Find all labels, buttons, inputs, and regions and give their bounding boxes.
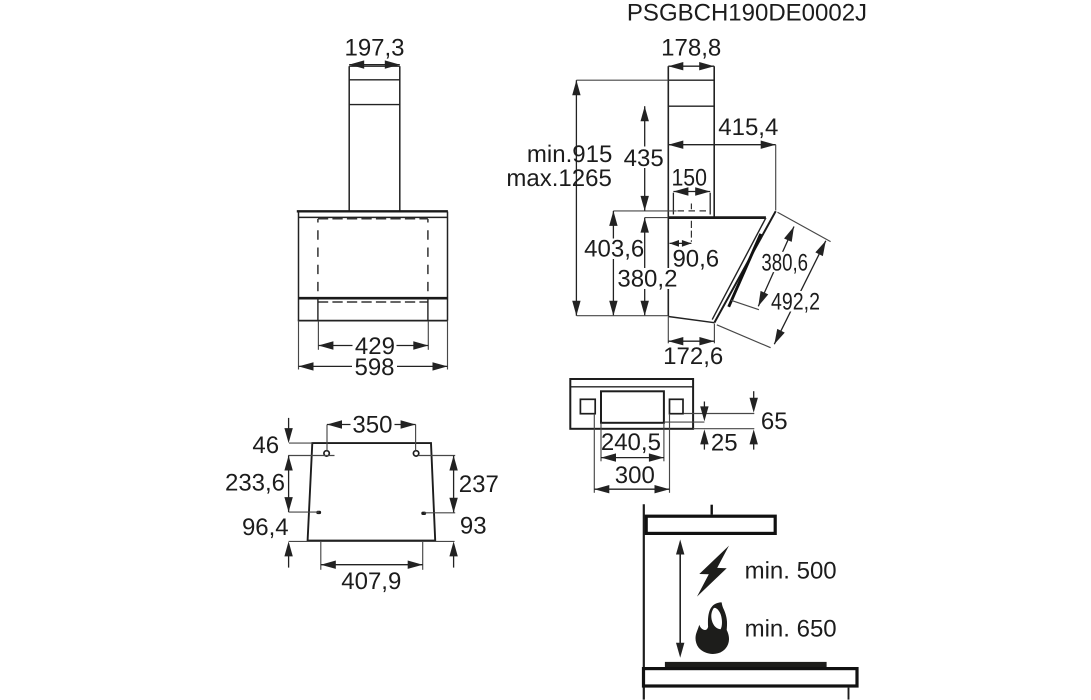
front chimney top edge: [349, 65, 400, 67]
front chimney left edge: [348, 66, 350, 211]
upper hole right: [413, 451, 418, 456]
svg-text:150: 150: [671, 164, 707, 191]
dim 93 lower arrow: [453, 554, 455, 568]
svg-text:380,6: 380,6: [761, 250, 808, 277]
svg-text:172,6: 172,6: [663, 343, 723, 370]
dim 25 lower arrow: [703, 442, 705, 450]
top edge extension left: [289, 442, 312, 444]
flame icon: [696, 602, 730, 654]
dim 435 line and arrows: [644, 106, 646, 211]
dim 492,2 line and arrows: [774, 241, 826, 344]
reference line 65 top: [684, 413, 755, 415]
extension line shared 435 403,6: [613, 210, 676, 212]
flame inner highlight: [711, 608, 722, 629]
svg-text:197,3: 197,3: [344, 35, 404, 62]
dim 65 upper arrow: [753, 391, 755, 399]
lower hole right: [421, 512, 426, 515]
front body left edge: [298, 212, 300, 321]
dashed filter top: [318, 218, 428, 220]
panel upper extension line: [778, 212, 831, 241]
bracket top inner line: [570, 386, 693, 388]
svg-text:237: 237: [459, 471, 499, 498]
dim 178,8 arrows: [668, 62, 683, 70]
glass lower extension line: [731, 300, 759, 309]
front body upper thin line: [299, 216, 448, 218]
svg-text:380,2: 380,2: [617, 266, 677, 293]
svg-text:65: 65: [761, 408, 788, 435]
svg-text:350: 350: [352, 412, 392, 439]
svg-text:25: 25: [711, 429, 738, 456]
svg-text:96,4: 96,4: [242, 514, 289, 541]
bottom panel left edge: [317, 298, 319, 320]
bracket small square right: [670, 399, 684, 413]
svg-text:PSGBCH190DE0002J: PSGBCH190DE0002J: [627, 0, 867, 26]
side body top extension for 380,2: [645, 217, 669, 219]
dim 429 line and arrows: [318, 345, 428, 347]
svg-text:492,2: 492,2: [771, 289, 820, 316]
dim 350 line and arrows: [327, 424, 416, 426]
dashed filter bottom: [318, 301, 428, 303]
bracket small square left: [580, 399, 595, 413]
dim 96,4 lower arrow: [288, 554, 290, 568]
lower hole left extension: [289, 511, 319, 513]
dim 65 lower arrow: [753, 442, 755, 450]
svg-text:46: 46: [252, 432, 279, 459]
cabinet right edge: [848, 688, 850, 700]
dim 237 line and arrows: [453, 456, 455, 513]
dim 46 upper arrow: [288, 418, 290, 431]
inclined glass band: [729, 234, 761, 307]
min max bottom extension line: [577, 315, 669, 317]
counter rectangle: [644, 669, 858, 686]
svg-text:435: 435: [624, 145, 664, 172]
reference line bottom: [693, 428, 754, 430]
canopy top tick: [711, 505, 713, 515]
svg-text:598: 598: [354, 354, 394, 381]
dim 197,3 arrows: [349, 64, 400, 66]
front body top thick line: [297, 210, 448, 212]
dim 172,6 line and arrows: [668, 340, 714, 342]
front chimney joint line 1: [349, 79, 400, 81]
dim 172,6 extension lines: [667, 317, 669, 343]
svg-text:min. 500: min. 500: [745, 557, 837, 584]
dim 350 extension lines: [326, 425, 328, 451]
dim 150 line and arrows: [673, 191, 710, 193]
side body bottom edge: [668, 317, 714, 323]
svg-text:403,6: 403,6: [584, 236, 644, 263]
mounting template trapezoid: [308, 443, 436, 540]
dim 240,5 extension lines: [600, 423, 602, 462]
svg-text:min.915: min.915: [527, 141, 612, 168]
dim 429 extension lines: [317, 321, 319, 350]
dim min max line and arrows: [575, 80, 577, 316]
dim 46 hole level extension: [288, 455, 334, 457]
dim 240,5 line and arrows: [601, 457, 664, 459]
dim 598 line and arrows: [299, 365, 448, 367]
dim 300 extension lines: [593, 414, 595, 493]
dim 233,6 line and arrows: [288, 456, 290, 513]
dim 407,9 line and arrows: [321, 564, 423, 566]
dim 380,6 line and arrows: [758, 227, 794, 307]
svg-text:93: 93: [460, 512, 487, 539]
lower hole left: [316, 511, 321, 514]
duct bracket 150 right: [709, 193, 711, 215]
bottom extension line: [289, 540, 455, 542]
reference line 25 top: [664, 421, 704, 423]
svg-text:min. 650: min. 650: [745, 615, 837, 642]
svg-text:407,9: 407,9: [341, 568, 401, 595]
upper hole left: [324, 451, 329, 456]
duct center line vertical dashed: [690, 204, 692, 242]
side chimney joint line 2: [668, 105, 714, 107]
wall line: [643, 504, 645, 699]
front body lower thick line: [299, 297, 448, 300]
dim 407,9 extension lines: [320, 541, 322, 569]
duct center line horizontal dashed: [678, 210, 711, 212]
dim 90,6 line and arrows: [670, 242, 692, 244]
side chimney top edge: [668, 65, 714, 67]
dim 300 line and arrows: [594, 488, 669, 490]
dashed filter right: [427, 219, 429, 298]
side chimney right edge: [713, 66, 715, 217]
bracket inner rectangle: [601, 391, 664, 423]
duct bracket 150 left: [672, 193, 674, 215]
front body right edge: [447, 212, 449, 321]
dim 380,2 line and arrows: [644, 218, 646, 316]
bottom panel right edge: [427, 298, 429, 320]
inclined panel inner edge: [712, 218, 766, 320]
svg-text:240,5: 240,5: [601, 429, 661, 456]
svg-text:300: 300: [615, 462, 655, 489]
side chimney joint line 1: [668, 79, 714, 81]
dashed filter left: [317, 219, 319, 298]
svg-text:max.1265: max.1265: [506, 165, 611, 192]
lightning bolt icon: [697, 546, 729, 597]
extension line panel corner vertical: [775, 145, 777, 211]
lower hole right extension: [424, 512, 455, 514]
panel lower extension line: [717, 325, 771, 348]
dim 415,4 line and arrows: [668, 144, 775, 146]
clearance double arrow: [679, 546, 681, 651]
min max top extension line: [576, 79, 668, 81]
dim 25 upper arrow: [703, 402, 705, 410]
svg-text:415,4: 415,4: [718, 114, 778, 141]
front body bottom edge: [298, 320, 448, 322]
bracket outer rectangle: [570, 379, 693, 429]
side body top thick line: [668, 216, 766, 219]
inclined panel outer edge: [714, 211, 775, 322]
dim 598 extension lines: [298, 321, 300, 370]
svg-text:178,8: 178,8: [661, 35, 721, 62]
side chimney left edge and body left edge: [667, 66, 669, 316]
svg-text:233,6: 233,6: [225, 470, 285, 497]
front chimney joint line 2: [349, 104, 400, 106]
hob surface bar: [665, 662, 827, 667]
dim 403,6 line and arrows: [612, 211, 614, 316]
front chimney right edge: [399, 66, 401, 211]
dim 237 hole extension: [418, 455, 455, 457]
svg-text:90,6: 90,6: [672, 246, 719, 273]
canopy rectangle: [646, 516, 775, 533]
